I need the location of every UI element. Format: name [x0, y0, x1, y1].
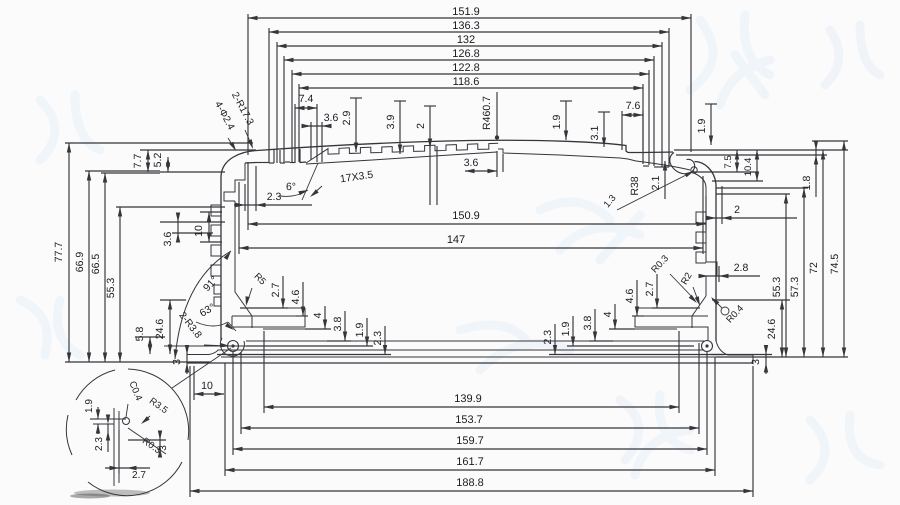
svg-text:3.9: 3.9: [385, 115, 397, 130]
left wall inner: [234, 201, 236, 284]
svg-text:1.9: 1.9: [84, 399, 95, 413]
svg-text:55.3: 55.3: [771, 277, 783, 298]
dim 10 left wall: [208, 212, 210, 242]
dim 147: [239, 247, 703, 249]
dim 4 right foot: [614, 304, 616, 329]
svg-text:10.4: 10.4: [743, 158, 754, 177]
left wall lower chamfer 63deg: [235, 284, 252, 328]
label R460.7 lid radius: [496, 92, 498, 137]
dim 3 right bottom: [765, 345, 767, 374]
svg-text:3: 3: [750, 359, 762, 365]
angle arc 91deg: [175, 251, 231, 359]
dim 3.6 left: [302, 125, 331, 127]
dim 2.7 left foot: [282, 276, 284, 308]
svg-text:66.9: 66.9: [74, 252, 86, 273]
tooth slope line 6deg: [302, 163, 318, 200]
lid center inner step: [498, 149, 636, 161]
svg-text:55.3: 55.3: [105, 278, 117, 299]
right wall tooth 1: [696, 212, 706, 223]
left foot steps: [252, 307, 302, 309]
dim 24.6 right: [781, 300, 783, 357]
right wall bottom tooth 2.8: [706, 258, 717, 296]
dim 66.5: [104, 173, 106, 362]
right wall tooth 2: [696, 232, 706, 243]
detail diagonal R0.3: [128, 428, 166, 454]
svg-text:1.9: 1.9: [696, 119, 708, 134]
dim 10 bottom left: [194, 393, 224, 395]
svg-text:3: 3: [171, 359, 183, 365]
left wall tooth 3: [211, 245, 221, 256]
detail indicator arc around left boss: [220, 338, 244, 356]
dim 3.6 left wall: [177, 214, 179, 241]
dim 3.6 lid center: [496, 151, 498, 177]
svg-text:10: 10: [201, 380, 213, 392]
dim 4.6 left foot: [302, 282, 304, 316]
left wall tooth 4: [211, 265, 221, 276]
svg-text:3.6: 3.6: [162, 232, 174, 247]
lid screw slot B: [294, 149, 296, 163]
dim 55.3 right: [785, 194, 787, 357]
left flange top line: [164, 345, 246, 347]
dim 3.9: [394, 100, 406, 102]
svg-text:2: 2: [415, 123, 427, 129]
svg-text:5.2: 5.2: [152, 153, 164, 168]
bottom plate mid line: [221, 356, 716, 358]
svg-text:57.3: 57.3: [789, 277, 801, 298]
svg-text:2.7: 2.7: [270, 283, 282, 298]
left chain horizontal extension lines: [65, 142, 253, 144]
svg-text:2.3: 2.3: [94, 437, 105, 451]
svg-text:7.7: 7.7: [132, 154, 144, 169]
lid right slot bottoms: [643, 165, 649, 167]
ext x679: [678, 331, 680, 413]
svg-text:2.8: 2.8: [734, 262, 749, 274]
svg-text:126.8: 126.8: [452, 48, 480, 60]
dim 2 right wall: [708, 217, 797, 219]
svg-text:5.8: 5.8: [134, 327, 146, 342]
dim 74.5: [843, 141, 845, 357]
svg-text:150.9: 150.9: [452, 210, 480, 222]
svg-text:139.9: 139.9: [454, 393, 482, 405]
bottom plate right tip edge: [752, 355, 754, 364]
dim 151.9 top chain: [248, 17, 691, 19]
profile lid inner surface left part: [224, 163, 245, 201]
dim 150.9: [248, 223, 706, 225]
svg-text:4.6: 4.6: [290, 290, 302, 305]
svg-text:66.5: 66.5: [90, 254, 102, 275]
lid inner surface with teeth 17X3.5: [306, 143, 498, 163]
svg-text:6°: 6°: [286, 181, 296, 193]
svg-text:2.7: 2.7: [132, 470, 146, 481]
svg-text:10: 10: [193, 225, 205, 237]
svg-text:1.9: 1.9: [560, 322, 572, 337]
svg-text:132: 132: [457, 34, 475, 46]
dim 1.9 lid left-mid: [560, 100, 572, 102]
detail corner circle: [123, 418, 130, 425]
dim 1.9 right of lid: [705, 103, 717, 105]
right corner ear groove: [670, 153, 695, 174]
left wall tooth 1: [211, 205, 221, 216]
svg-text:2.3: 2.3: [542, 330, 554, 345]
right corner inner circle marker: [691, 167, 697, 173]
label R0.4 right w/ marker: [721, 307, 729, 315]
detail wall vertical: [113, 408, 115, 486]
lid screw slot A: [273, 150, 275, 163]
dim 132 top chain: [277, 45, 662, 47]
ext x264: [263, 331, 265, 413]
dim 24.6 left: [169, 300, 171, 354]
right wall tooth 3: [696, 252, 706, 263]
dim 77.7: [68, 143, 70, 362]
lid inner between slots: [285, 161, 290, 163]
left wall tooth 2: [211, 225, 221, 236]
profile lid left corner outer: [221, 151, 257, 177]
dim 4.6 right foot: [636, 280, 638, 316]
detail dim 2.3: [107, 424, 109, 452]
right screw boss: [702, 341, 713, 352]
dim 2 lid tooth: [424, 105, 436, 107]
svg-text:161.7: 161.7: [456, 456, 484, 468]
dim 4 left foot: [324, 306, 326, 329]
svg-text:7.4: 7.4: [299, 93, 314, 105]
bottom plate left tip edge: [186, 355, 188, 364]
detail leader line to boss: [172, 348, 231, 388]
dim 2.3 right foot: [554, 324, 556, 355]
dim 188.8: [190, 490, 753, 492]
dim 55.3 left: [119, 207, 121, 362]
svg-text:151.9: 151.9: [452, 6, 480, 18]
svg-text:R38: R38: [629, 176, 641, 195]
ext x225: [224, 363, 226, 476]
svg-text:2: 2: [734, 204, 740, 216]
dim 5.8: [149, 337, 151, 354]
dim 2.3 lid left wall: [234, 204, 312, 206]
dim 118.6 top chain: [299, 87, 643, 89]
svg-text:3.8: 3.8: [582, 316, 594, 331]
svg-text:7.6: 7.6: [626, 100, 641, 112]
dim 66.9: [88, 171, 90, 362]
dim 7.5 right corner: [736, 150, 738, 172]
svg-text:2.1: 2.1: [650, 176, 662, 191]
dim 1.8: [815, 141, 817, 197]
extension lines top chain right: [690, 14, 692, 152]
dim 3.8 right foot: [594, 309, 596, 341]
svg-text:3: 3: [158, 445, 169, 451]
left screw boss: [228, 341, 239, 352]
dim 122.8 top chain: [292, 73, 649, 75]
lid mid extension lines: [429, 145, 431, 205]
ext x241: [240, 352, 242, 434]
right chain ext lines: [716, 193, 790, 195]
inner floor line: [246, 340, 704, 342]
dim 2.1: [664, 161, 666, 199]
svg-text:3.1: 3.1: [589, 126, 601, 141]
ext x699: [698, 343, 700, 434]
svg-text:1.9: 1.9: [551, 115, 563, 130]
right corner outer arc: [695, 162, 717, 185]
detail view circle: [66, 369, 188, 496]
svg-text:2.3: 2.3: [372, 331, 384, 346]
svg-text:4.6: 4.6: [624, 289, 636, 304]
dim 5.2: [167, 157, 169, 172]
svg-text:2.7: 2.7: [644, 282, 656, 297]
dim 1.9 right foot: [572, 316, 574, 346]
detail dim 2.7: [105, 467, 150, 469]
svg-text:1.9: 1.9: [354, 323, 366, 338]
dim 2.9: [350, 97, 362, 99]
lid inner right corner curve: [694, 173, 706, 188]
dim 7.4: [295, 107, 317, 109]
svg-text:R460.7: R460.7: [481, 96, 493, 130]
svg-text:2.9: 2.9: [341, 111, 353, 126]
svg-text:7.5: 7.5: [723, 155, 734, 168]
svg-text:24.6: 24.6: [766, 319, 778, 340]
svg-text:159.7: 159.7: [456, 435, 484, 447]
lid inner right slope: [636, 161, 690, 170]
dim 3 left bottom: [186, 345, 188, 374]
bottom plate upper line: [187, 350, 704, 355]
svg-text:2.3: 2.3: [267, 191, 282, 203]
dim 72: [822, 150, 824, 357]
svg-text:77.7: 77.7: [53, 242, 65, 263]
dim 3.8 left foot: [344, 311, 346, 341]
right wall inner: [705, 188, 707, 258]
lid inner ceiling line under teeth: [306, 152, 497, 164]
dim 10.4 right corner: [756, 150, 758, 181]
bottom plate lower line: [187, 362, 753, 364]
left wall outer: [220, 176, 222, 341]
profile lid outer surface: [257, 140, 673, 152]
ext x753: [752, 366, 754, 497]
ext right 155: [676, 154, 827, 156]
left wall small notch 1: [214, 285, 221, 294]
dim 2.3 left foot: [384, 326, 386, 355]
dim 126.8 top chain: [284, 59, 654, 61]
bottom plate top right tip: [716, 341, 753, 355]
detail dim 1.9: [97, 407, 99, 419]
left wall small notch 2: [214, 297, 221, 306]
svg-text:188.8: 188.8: [456, 477, 484, 489]
ext x707: [706, 352, 708, 455]
svg-text:4: 4: [602, 311, 614, 317]
svg-text:3.6: 3.6: [464, 157, 479, 169]
ext x190: [189, 366, 191, 497]
extension lines top chain left: [247, 14, 249, 155]
R38 leader diagonal: [617, 171, 694, 210]
right wall lower chamfer: [692, 296, 706, 328]
dim 1.9 left foot: [366, 318, 368, 346]
svg-text:118.6: 118.6: [453, 76, 480, 88]
right wall outer: [715, 184, 717, 341]
svg-text:4: 4: [312, 312, 324, 318]
dim 2.8 right tooth: [699, 275, 760, 277]
dim 3.1: [598, 111, 610, 113]
svg-text:136.3: 136.3: [452, 20, 480, 32]
dim 7.7 top left: [147, 150, 149, 172]
dim 136.3 top chain: [269, 31, 669, 33]
ext x715: [714, 357, 716, 476]
svg-text:3.6: 3.6: [324, 112, 339, 124]
dim 57.3: [803, 188, 805, 357]
detail dim 3: [159, 434, 161, 455]
dim 161.7: [225, 469, 715, 471]
svg-text:72: 72: [808, 262, 820, 274]
dim 139.9: [264, 406, 679, 408]
right foot steps: [638, 307, 688, 309]
dim 159.7: [233, 448, 707, 450]
svg-text:3.8: 3.8: [332, 317, 344, 332]
svg-text:153.7: 153.7: [455, 414, 483, 426]
dim 153.7: [241, 427, 699, 429]
dim 7.6: [622, 114, 643, 116]
svg-text:122.8: 122.8: [452, 62, 480, 74]
ext x233: [232, 352, 234, 455]
detail wall horizontal: [90, 418, 126, 420]
dim 2.7 right foot: [656, 274, 658, 308]
svg-text:74.5: 74.5: [829, 254, 841, 275]
svg-text:24.6: 24.6: [154, 319, 166, 340]
svg-text:147: 147: [447, 234, 465, 246]
